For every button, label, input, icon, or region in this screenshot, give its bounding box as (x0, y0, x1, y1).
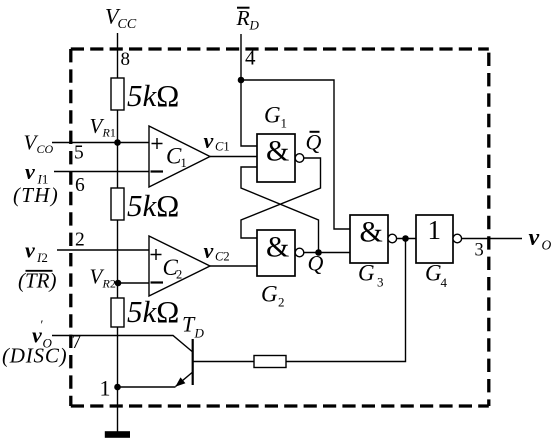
svg-text:5kΩ: 5kΩ (127, 294, 179, 329)
value label 5k ohm R3 (127, 294, 179, 329)
svg-text:6: 6 (75, 175, 85, 196)
minus sign C1 (151, 170, 164, 172)
label TD (182, 312, 205, 341)
svg-text:O: O (542, 238, 552, 253)
minus sign C2 (151, 281, 164, 283)
op-amp comparator C1 (149, 126, 210, 187)
svg-text:4: 4 (245, 46, 256, 70)
wire pin 7 lead (DISC to collector) (52, 336, 193, 353)
wire emitter to ground node (118, 386, 176, 388)
svg-text:G: G (358, 261, 375, 286)
label G2 (261, 282, 285, 310)
label VR1 (90, 114, 116, 140)
label G3 (358, 261, 384, 290)
svg-text:G: G (425, 261, 442, 286)
label VCC (105, 4, 137, 33)
wire R2 to R3 (117, 220, 119, 298)
wire pin4 branch to G3 upper input (241, 80, 350, 229)
svg-text:G: G (264, 103, 281, 128)
svg-text:C1: C1 (215, 140, 230, 154)
label Qbar (306, 130, 322, 155)
svg-text:2: 2 (75, 230, 85, 251)
svg-text:&: & (360, 216, 383, 249)
wire pin 3 output lead (462, 238, 522, 240)
svg-text:5: 5 (74, 143, 84, 164)
label vI2 (25, 238, 48, 266)
wire Qbar to G2 upper input (cross coupling) (241, 158, 321, 238)
wire Q output to G3 lower input (304, 252, 350, 254)
overbar of TR (26, 270, 53, 272)
ground symbol (105, 431, 130, 438)
wire VR2 node to C2 minus (118, 282, 149, 284)
resistor R2 5k (111, 188, 124, 220)
svg-text:2: 2 (176, 268, 182, 282)
svg-text:1: 1 (428, 215, 442, 245)
wire pin 5 lead (VCO to node) (52, 142, 149, 144)
bubble G1 output (295, 154, 304, 163)
svg-text:R1: R1 (102, 126, 116, 140)
overbar of RD (237, 7, 250, 9)
op-amp comparator C2 (149, 236, 210, 296)
node G3 output junction dot (402, 235, 409, 242)
node pin4 branch dot (238, 77, 245, 84)
svg-text:(TR): (TR) (18, 269, 57, 293)
svg-text:R2: R2 (102, 277, 116, 291)
svg-text:v: v (204, 128, 214, 153)
wire pin 4 lead RD down to G1 input (241, 34, 257, 146)
wire G3 node down to base resistor (286, 239, 406, 362)
svg-text:2: 2 (278, 295, 285, 310)
bubble G4 output (453, 234, 462, 243)
svg-text:G: G (261, 282, 278, 307)
node VR1 junction dot (114, 139, 121, 146)
label (TR) with overbar (18, 269, 57, 293)
value label 5k ohm R2 (127, 188, 179, 223)
IC dashed border box (71, 47, 489, 50)
svg-text:v: v (529, 225, 540, 251)
label vO output (529, 225, 552, 253)
svg-text:D: D (194, 326, 205, 341)
label vO prime (32, 317, 53, 351)
label VCO (24, 131, 54, 157)
svg-text:&: & (266, 231, 289, 264)
svg-text:′: ′ (41, 317, 44, 332)
label VR2 (90, 265, 116, 291)
svg-text:R: R (236, 6, 250, 30)
resistor R3 5k (111, 298, 124, 327)
svg-text:7: 7 (72, 332, 82, 353)
svg-text:CO: CO (37, 142, 54, 156)
label G4 (425, 261, 448, 291)
svg-text:1: 1 (181, 156, 187, 170)
resistor R1 5k (111, 78, 124, 110)
overbar of Qbar (310, 131, 320, 133)
svg-text:v: v (25, 238, 35, 263)
wire Q feedback to G1 lower input (cross coupling) (241, 167, 319, 253)
nand gate G2 box (257, 230, 295, 276)
inverter G4 box (416, 215, 453, 263)
wire VCC to R1 (pin 8 lead) (117, 33, 119, 78)
svg-text:4: 4 (441, 275, 448, 290)
svg-text:C2: C2 (215, 250, 230, 264)
plus sign C2 (151, 249, 162, 260)
bubble G2 output (295, 248, 304, 257)
resistor base RB (254, 356, 286, 368)
bubble G3 output (388, 234, 397, 243)
svg-text:1: 1 (281, 116, 288, 131)
svg-text:5kΩ: 5kΩ (127, 188, 179, 223)
nand gate G1 box (257, 134, 295, 182)
nand gate G3 box (350, 215, 388, 263)
node VR2 junction dot (115, 280, 122, 287)
svg-text:5kΩ: 5kΩ (127, 78, 179, 113)
value label 5k ohm R1 (127, 78, 179, 113)
label C1 (166, 144, 187, 171)
plus sign C1 (152, 138, 163, 149)
svg-text:v: v (204, 238, 214, 263)
transistor TD emitter arrowhead (175, 377, 185, 386)
svg-text:v: v (25, 159, 35, 184)
wire C2 output vC2 (210, 265, 257, 267)
label G1 (264, 103, 287, 131)
wire pin 6 lead (vI1 to C1 minus) (54, 171, 149, 173)
wire R1 to R2 (117, 110, 119, 188)
wire pin 2 lead (vI2 to C2 plus) (57, 249, 149, 251)
transistor TD base bar (192, 339, 194, 385)
svg-text:D: D (249, 18, 260, 33)
svg-text:3: 3 (377, 275, 384, 290)
svg-text:Q: Q (306, 130, 322, 155)
node Q junction dot (315, 249, 322, 256)
label C2 (163, 255, 183, 282)
svg-text:3: 3 (475, 241, 484, 261)
svg-text:(DISC): (DISC) (2, 344, 67, 368)
svg-text:1: 1 (100, 376, 111, 401)
label vC2 (204, 238, 230, 264)
transistor TD emitter line (176, 372, 193, 387)
svg-text:Q: Q (308, 251, 324, 276)
svg-text:I2: I2 (36, 250, 48, 265)
svg-text:(TH): (TH) (13, 183, 59, 207)
svg-text:CC: CC (118, 17, 137, 32)
wire base resistor to transistor base (193, 361, 254, 363)
label vI1 (25, 159, 48, 187)
label RD with overbar (236, 6, 260, 33)
wire G3 output to G4 input (397, 238, 416, 240)
svg-text:8: 8 (121, 49, 131, 70)
wire R3 to ground node (117, 327, 119, 432)
wire C1 output vC1 (210, 156, 257, 158)
svg-text:&: & (266, 135, 289, 168)
label vC1 (204, 128, 230, 154)
node pin 1 junction dot (114, 384, 121, 391)
